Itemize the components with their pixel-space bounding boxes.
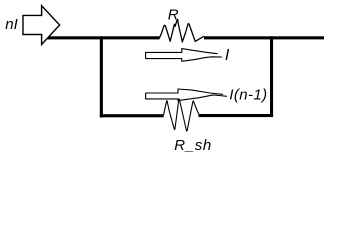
wire: bottom horizontal left segment <box>100 114 164 117</box>
wire: right vertical branch <box>270 36 273 117</box>
svg-text:I: I <box>225 47 230 64</box>
wire: top horizontal left segment <box>47 36 160 39</box>
branch current arrow I (hollow arrow) <box>146 49 222 62</box>
resistor R_sh (zigzag through bottom wire) <box>164 99 199 131</box>
svg-text:R: R <box>168 6 179 23</box>
current source arrow nI (block arrow) <box>23 6 60 45</box>
svg-text:R_sh: R_sh <box>174 137 212 154</box>
svg-text:nI: nI <box>5 16 18 33</box>
branch current arrow I(n-1) (hollow arrow) <box>146 89 227 101</box>
svg-text:I(n-1): I(n-1) <box>229 87 267 104</box>
resistor R (zigzag) <box>160 20 204 43</box>
wire: bottom horizontal right segment <box>198 114 273 117</box>
wire: left vertical branch <box>100 36 103 117</box>
wire: top horizontal right segment <box>204 36 324 39</box>
